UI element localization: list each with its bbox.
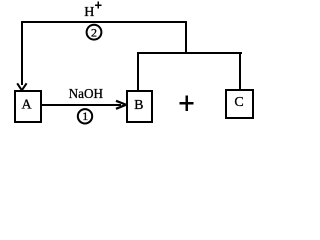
svg-text:2: 2 xyxy=(91,26,97,40)
svg-text:B: B xyxy=(134,98,143,113)
svg-text:1: 1 xyxy=(82,109,88,123)
svg-text:H: H xyxy=(84,5,94,20)
svg-text:NaOH: NaOH xyxy=(69,87,103,102)
svg-text:C: C xyxy=(234,95,243,110)
svg-text:A: A xyxy=(21,97,32,112)
